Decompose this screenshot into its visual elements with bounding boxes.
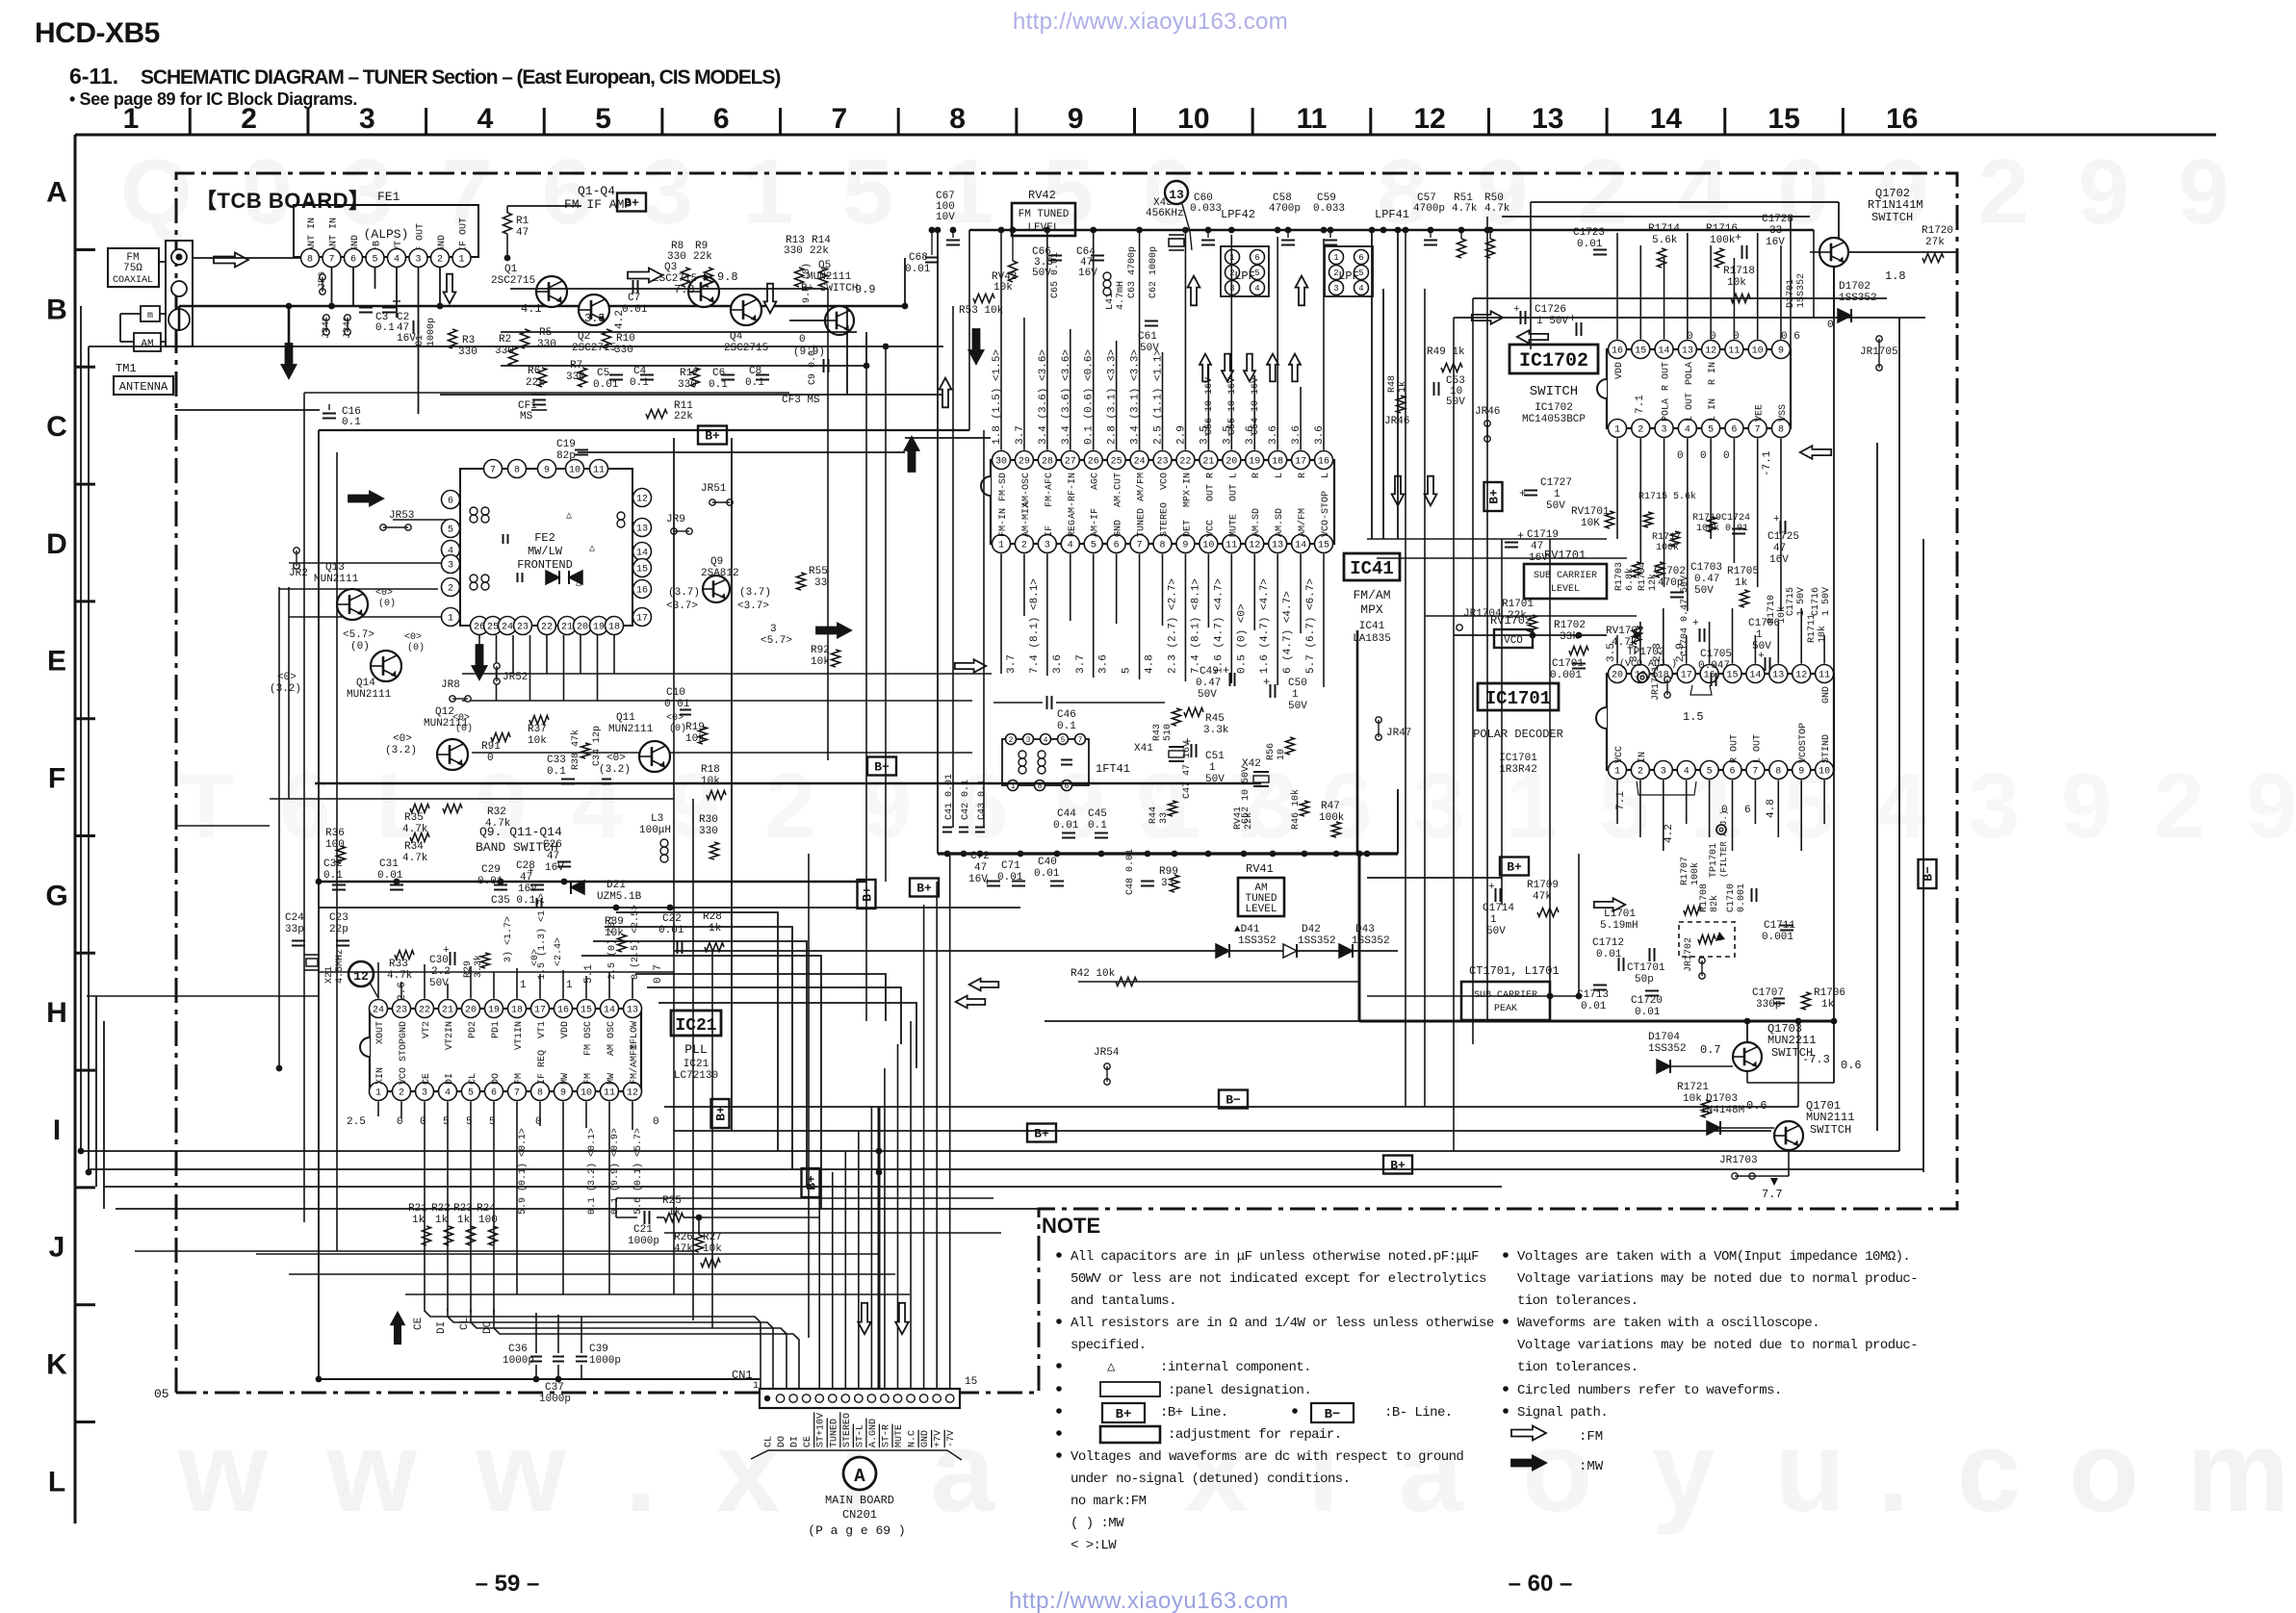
svg-text:14: 14 — [1650, 103, 1683, 135]
svg-text:0.033: 0.033 — [1313, 203, 1345, 215]
svg-text:ANT IN: ANT IN — [329, 218, 340, 252]
svg-text:50V: 50V — [1546, 500, 1565, 512]
svg-text:20: 20 — [465, 1006, 477, 1016]
svg-text:C49: C49 — [1200, 666, 1219, 678]
svg-text:27k: 27k — [1925, 237, 1945, 248]
svg-text:POLA: POLA — [1662, 398, 1672, 422]
svg-text:50V: 50V — [1032, 268, 1051, 279]
svg-text:330: 330 — [537, 339, 556, 350]
svg-text:AM-OSC: AM-OSC — [1021, 473, 1032, 507]
svg-text:C46: C46 — [1057, 709, 1076, 721]
svg-text:R91: R91 — [481, 741, 501, 753]
svg-text:1SS352: 1SS352 — [1648, 1043, 1687, 1055]
svg-text:C47 47 16V: C47 47 16V — [1182, 741, 1193, 799]
wire q5 b — [789, 320, 825, 321]
svg-text:8: 8 — [1160, 541, 1166, 551]
svg-text:D1702: D1702 — [1839, 281, 1870, 293]
svg-text:LEVEL: LEVEL — [1027, 222, 1059, 234]
svg-text:IF REQ: IF REQ — [537, 1050, 548, 1085]
svg-text:4: 4 — [477, 103, 494, 135]
svg-text:B+: B+ — [1034, 1127, 1049, 1141]
svg-text:(VCO ADJ.): (VCO ADJ.) — [1619, 658, 1677, 670]
svg-text:R1716: R1716 — [1706, 223, 1738, 235]
svg-text:4700p: 4700p — [1269, 203, 1301, 215]
svg-text:L: L — [48, 1466, 65, 1498]
svg-text:6: 6 — [1358, 253, 1363, 263]
signal arrow fm in — [214, 253, 248, 268]
svg-text:VCO: VCO — [1160, 473, 1171, 490]
svg-text:0.033: 0.033 — [1190, 203, 1222, 215]
svg-text:MW: MW — [606, 1073, 617, 1085]
svg-text:75Ω: 75Ω — [123, 263, 142, 274]
svg-text:C32: C32 — [323, 858, 343, 870]
svg-text:C1710: C1710 — [1726, 883, 1737, 912]
svg-text:0.01: 0.01 — [593, 379, 619, 391]
svg-text:3.5: 3.5 — [1222, 425, 1233, 445]
svg-text:C40: C40 — [1038, 857, 1057, 868]
svg-text:17: 17 — [636, 614, 648, 625]
svg-text:C1705: C1705 — [1700, 649, 1732, 660]
svg-text:R1705: R1705 — [1727, 566, 1759, 577]
svg-text:4.1: 4.1 — [521, 302, 542, 316]
svg-text:1: 1 — [566, 980, 573, 991]
svg-text:1: 1 — [1614, 425, 1620, 436]
fm arrow into ic41 — [955, 659, 986, 673]
svg-text:PLL: PLL — [684, 1042, 707, 1057]
svg-text:0.1 (9.9) <0.9>: 0.1 (9.9) <0.9> — [609, 1128, 621, 1215]
svg-text:11: 11 — [1819, 671, 1830, 681]
svg-text:– 59 –: – 59 – — [476, 1571, 540, 1597]
svg-text:+7V: +7V — [934, 1430, 944, 1447]
svg-text:FE1: FE1 — [377, 190, 400, 204]
svg-text:0.01: 0.01 — [1034, 868, 1060, 880]
svg-text:16: 16 — [636, 586, 648, 597]
svg-text:0: 0 — [487, 753, 494, 764]
svg-text:IC1702: IC1702 — [1519, 350, 1588, 372]
svg-text:C5: C5 — [597, 368, 609, 379]
svg-text:C45: C45 — [1088, 808, 1107, 820]
svg-text:1: 1 — [1209, 762, 1216, 774]
svg-text:Q13: Q13 — [325, 562, 345, 574]
svg-text:Q14: Q14 — [356, 678, 375, 689]
svg-text:5: 5 — [1122, 667, 1133, 674]
svg-text:1SS352: 1SS352 — [1796, 273, 1807, 308]
svg-text:5: 5 — [372, 255, 377, 266]
svg-text:LPF: LPF — [1338, 269, 1359, 283]
svg-text:C1724: C1724 — [1721, 513, 1750, 524]
solid up arrow mid — [905, 437, 919, 472]
svg-text:C63 4700p: C63 4700p — [1127, 246, 1138, 298]
svg-text:15: 15 — [1318, 541, 1329, 551]
mw arrow right mid — [816, 624, 851, 638]
wire v940 — [904, 258, 906, 306]
IC21 body and pins — [370, 1009, 641, 1091]
svg-text:47: 47 — [974, 862, 987, 874]
svg-text:LC72130: LC72130 — [674, 1070, 718, 1082]
svg-text:7.7: 7.7 — [1762, 1188, 1783, 1201]
svg-text:MW: MW — [560, 1073, 571, 1085]
svg-text:HCD-XB5: HCD-XB5 — [35, 17, 160, 49]
svg-text:0.01: 0.01 — [1577, 239, 1603, 250]
svg-text:SWITCH: SWITCH — [1810, 1123, 1851, 1137]
svg-text:3: 3 — [1661, 767, 1666, 778]
svg-text:DI: DI — [436, 1321, 448, 1334]
svg-text:<5.7>: <5.7> — [761, 635, 792, 647]
svg-text:LEVEL: LEVEL — [1245, 904, 1277, 915]
svg-text:9.8 (0): 9.8 (0) — [801, 263, 813, 303]
svg-text:0: 0 — [1733, 331, 1740, 343]
svg-text:27: 27 — [1065, 457, 1076, 468]
svg-text:FM OSC: FM OSC — [583, 1021, 594, 1056]
svg-text:15: 15 — [1767, 103, 1799, 135]
svg-text:9.9: 9.9 — [855, 283, 876, 296]
grid border frame — [75, 134, 2216, 137]
FE1 pin wires — [331, 268, 333, 306]
svg-text:VT1: VT1 — [537, 1021, 548, 1038]
svg-text:2SC2715: 2SC2715 — [724, 343, 768, 354]
svg-text:1SS352: 1SS352 — [1238, 935, 1277, 947]
svg-text:330: 330 — [784, 245, 803, 257]
svg-text:FE2: FE2 — [534, 531, 555, 545]
svg-text:R1711: R1711 — [1807, 614, 1818, 643]
svg-text:1: 1 — [753, 1381, 759, 1392]
FM tuned level box — [1012, 203, 1075, 236]
svg-text:AM/FM: AM/FM — [1297, 508, 1308, 537]
B+ box cf3 — [698, 426, 727, 445]
svg-text:C1712: C1712 — [1592, 937, 1624, 949]
svg-text:LPF42: LPF42 — [1221, 208, 1255, 221]
svg-text:5: 5 — [468, 1088, 474, 1099]
svg-text:0.01: 0.01 — [1635, 1007, 1661, 1018]
wire c46 — [993, 702, 1043, 704]
svg-text:11: 11 — [1225, 541, 1237, 551]
svg-text:0.7: 0.7 — [1700, 1043, 1721, 1057]
svg-text:R92: R92 — [811, 645, 830, 656]
svg-text:6-11.: 6-11. — [69, 64, 118, 89]
svg-text:1.8 (1.5) <1.5>: 1.8 (1.5) <1.5> — [992, 349, 1003, 445]
CN1 feed wires — [818, 1193, 820, 1389]
svg-text:1: 1 — [1292, 689, 1299, 701]
wire top right rail2 — [1502, 216, 1810, 218]
svg-text:C29: C29 — [481, 864, 501, 876]
svg-text:0.6: 0.6 — [1746, 1099, 1767, 1113]
svg-text:ANT IN: ANT IN — [307, 218, 318, 252]
svg-text:TUNED: TUNED — [829, 1419, 839, 1447]
svg-text:0.001: 0.001 — [1550, 670, 1582, 681]
svg-text:4700p: 4700p — [1413, 203, 1445, 215]
svg-text:• See page 89 for IC Block Dia: • See page 89 for IC Block Diagrams. — [69, 90, 357, 109]
svg-text:R99: R99 — [1159, 866, 1178, 878]
svg-text:2SA812: 2SA812 — [701, 568, 739, 579]
svg-text:(FILTER ADJ.): (FILTER ADJ.) — [1719, 810, 1729, 878]
svg-text:X41: X41 — [1134, 743, 1153, 755]
svg-text:C10: C10 — [666, 687, 685, 699]
svg-text:R25: R25 — [662, 1195, 682, 1207]
transistor Q12 — [437, 739, 468, 770]
svg-text:3.4 (3.6) <3.6>: 3.4 (3.6) <3.6> — [1061, 349, 1072, 445]
svg-text:22k: 22k — [674, 411, 693, 422]
svg-text:G: G — [45, 880, 67, 911]
wire down left — [288, 306, 291, 348]
svg-text:16V: 16V — [397, 333, 416, 345]
svg-text:(9.9): (9.9) — [793, 346, 825, 358]
svg-text:5: 5 — [466, 1116, 473, 1128]
svg-text:0: 0 — [653, 1116, 659, 1128]
svg-text:33: 33 — [814, 577, 827, 589]
svg-text:12: 12 — [1249, 541, 1260, 551]
svg-text:2.5 (1.1) <1.1>: 2.5 (1.1) <1.1> — [1153, 349, 1165, 445]
svg-text:R10: R10 — [616, 333, 635, 345]
svg-text:A: A — [854, 1466, 865, 1487]
svg-text:IF: IF — [1045, 525, 1055, 537]
sub carrier level box — [1524, 564, 1607, 599]
svg-text:10: 10 — [1202, 541, 1214, 551]
wire B-row bus — [179, 305, 905, 308]
svg-text:UZM5.1B: UZM5.1B — [597, 891, 642, 903]
svg-text:R1718: R1718 — [1723, 266, 1755, 277]
svg-text:0: 0 — [1710, 331, 1716, 343]
svg-text:NOTE: NOTE — [1042, 1214, 1100, 1238]
svg-text:TP1702: TP1702 — [1627, 647, 1665, 658]
svg-text:<0>: <0> — [606, 753, 626, 764]
svg-text:25: 25 — [487, 623, 499, 633]
svg-text:5: 5 — [1254, 269, 1259, 278]
svg-text:MUTE: MUTE — [894, 1424, 905, 1447]
svg-text:B: B — [46, 294, 67, 325]
svg-text:R3: R3 — [462, 335, 475, 346]
svg-text:0.1: 0.1 — [375, 322, 395, 334]
svg-text:50V: 50V — [1486, 926, 1506, 937]
svg-text:FM-IN: FM-IN — [998, 508, 1009, 537]
svg-text:2: 2 — [1021, 541, 1027, 551]
hollow arrow q5 — [764, 284, 777, 314]
svg-text:12: 12 — [1705, 346, 1716, 357]
svg-text:POLA: POLA — [1685, 362, 1695, 385]
svg-text:F: F — [48, 763, 65, 795]
svg-text:1k: 1k — [1735, 577, 1748, 589]
svg-text:D21: D21 — [606, 880, 626, 891]
svg-text:F OUT: F OUT — [416, 223, 426, 252]
svg-text:3: 3 — [1662, 425, 1667, 436]
svg-text:C26: C26 — [543, 839, 562, 851]
svg-text:17: 17 — [1295, 457, 1306, 468]
svg-text:C71: C71 — [1001, 860, 1020, 872]
svg-text:Voltages are taken with a VOM(: Voltages are taken with a VOM(Input impe… — [1517, 1249, 1910, 1265]
svg-text:m: m — [147, 311, 153, 321]
svg-text:A.GND: A.GND — [868, 1419, 879, 1447]
svg-text:AM-IF: AM-IF — [1091, 508, 1101, 537]
svg-text:(0): (0) — [378, 598, 396, 609]
svg-text:B+: B+ — [874, 760, 890, 775]
svg-text:5: 5 — [489, 1116, 496, 1128]
svg-text:VEE: VEE — [1755, 404, 1766, 422]
svg-text:<0>: <0> — [375, 588, 393, 599]
sub carrier peak box — [1461, 982, 1550, 1020]
svg-text:29: 29 — [1019, 457, 1030, 468]
svg-text:16: 16 — [557, 1006, 569, 1016]
fm arrows down pair — [1392, 476, 1405, 506]
svg-text:R34: R34 — [404, 841, 424, 853]
svg-text:TM1: TM1 — [116, 362, 137, 375]
svg-text:C1727: C1727 — [1540, 477, 1572, 489]
svg-text:SUB CARRIER: SUB CARRIER — [1534, 571, 1597, 581]
svg-text:L1701: L1701 — [1604, 909, 1636, 920]
svg-text:19: 19 — [488, 1006, 500, 1016]
svg-text:FM-AFC: FM-AFC — [1045, 473, 1055, 507]
svg-text:8: 8 — [537, 1088, 543, 1099]
svg-text:15: 15 — [1635, 346, 1646, 357]
svg-text:330: 330 — [667, 251, 686, 263]
svg-text:14: 14 — [1295, 541, 1306, 551]
svg-text:FM: FM — [514, 1073, 525, 1085]
svg-text:JR51: JR51 — [701, 483, 727, 495]
cap arrows row — [1200, 354, 1211, 382]
svg-text:PEAK: PEAK — [1494, 1004, 1517, 1014]
svg-text:10k: 10k — [528, 735, 547, 747]
svg-text:0.001: 0.001 — [1737, 883, 1747, 912]
svg-text:0: 0 — [535, 1116, 542, 1128]
svg-text:B−: B− — [1225, 1093, 1241, 1108]
svg-text:JR8: JR8 — [441, 679, 460, 691]
svg-text:1 50V: 1 50V — [1796, 587, 1807, 616]
svg-text:B+: B+ — [714, 1106, 729, 1121]
svg-text:B+: B+ — [1116, 1407, 1132, 1422]
svg-text:C36: C36 — [508, 1344, 528, 1355]
svg-text:VDD: VDD — [1614, 362, 1625, 379]
TCB board dash-dot outline — [176, 173, 1957, 1393]
fm arrow lpf1 — [1188, 276, 1200, 306]
svg-text:(0): (0) — [350, 641, 370, 653]
wire am — [120, 313, 141, 315]
svg-text:C24: C24 — [285, 912, 304, 924]
CN1 bracket — [751, 1450, 962, 1460]
transistor Q13 — [337, 589, 368, 620]
svg-text:ST-R: ST-R — [881, 1424, 891, 1447]
svg-text:3.6: 3.6 — [1291, 425, 1303, 445]
svg-text:C35 0.1: C35 0.1 — [491, 895, 536, 907]
svg-text:+: + — [1519, 487, 1526, 500]
svg-text:VCO-STOP: VCO-STOP — [1321, 491, 1331, 537]
svg-text:+: + — [1513, 304, 1520, 316]
svg-text:+: + — [1488, 882, 1495, 893]
svg-text:11: 11 — [1297, 103, 1328, 135]
svg-text:1: 1 — [998, 541, 1004, 551]
svg-text:3.3k: 3.3k — [1203, 725, 1229, 736]
svg-text:1: 1 — [448, 614, 453, 625]
svg-text:1SS352: 1SS352 — [1298, 935, 1336, 947]
svg-text:100k: 100k — [1710, 235, 1736, 246]
wire ic1701 top rail — [1454, 634, 1607, 636]
svg-text:D: D — [46, 528, 67, 560]
svg-text:C1: C1 — [415, 335, 426, 346]
svg-text:ST+10V: ST+10V — [816, 1413, 827, 1447]
resistor R1 — [503, 213, 512, 234]
svg-text:C: C — [46, 411, 67, 443]
IC1702 body and pins — [1607, 349, 1791, 428]
svg-text:0.1: 0.1 — [1088, 820, 1107, 832]
transformer IFT41 — [1002, 739, 1089, 785]
svg-text:OUT L: OUT L — [1228, 473, 1239, 501]
svg-text:6: 6 — [1731, 425, 1737, 436]
svg-text:10: 10 — [1752, 346, 1764, 357]
right bus wires — [1473, 297, 1887, 299]
svg-text:AM.CUT: AM.CUT — [1114, 473, 1124, 507]
svg-text:47: 47 — [1773, 543, 1786, 554]
svg-text:AM-MIX: AM-MIX — [1021, 502, 1032, 537]
svg-text:2.9: 2.9 — [1175, 425, 1187, 445]
IC1701 stubs — [1616, 635, 1618, 664]
svg-text:B−: B− — [1325, 1407, 1341, 1422]
IC1702 designator box — [1509, 345, 1598, 373]
IC41 body and pins — [991, 460, 1334, 544]
svg-text:22: 22 — [1179, 457, 1191, 468]
antenna terminal TM1 — [166, 241, 193, 346]
svg-text:22k: 22k — [693, 251, 712, 263]
svg-text:10K: 10K — [1581, 518, 1600, 529]
FE2 pins — [442, 491, 460, 509]
svg-text:<2.4>: <2.4> — [554, 937, 564, 966]
svg-text:MAIN BOARD: MAIN BOARD — [825, 1494, 894, 1507]
svg-text:R OUT: R OUT — [1730, 734, 1741, 763]
svg-text:R1706: R1706 — [1814, 987, 1845, 999]
svg-text:0: 0 — [397, 1116, 403, 1128]
svg-text:4.7mH: 4.7mH — [1116, 281, 1126, 310]
svg-text:11: 11 — [593, 466, 605, 476]
svg-text:C1716: C1716 — [1811, 587, 1821, 616]
svg-text:B+: B+ — [1487, 489, 1502, 504]
svg-text:under no-signal (detuned) cond: under no-signal (detuned) conditions. — [1071, 1472, 1351, 1487]
transistor Q4 — [731, 294, 761, 325]
IC1702 stubs — [1616, 233, 1618, 340]
svg-text:3: 3 — [770, 624, 777, 635]
fm arrow subc — [1594, 898, 1625, 911]
svg-text:0: 0 — [420, 1116, 426, 1128]
svg-text:3.7: 3.7 — [1006, 654, 1018, 674]
transistor Q3 — [688, 276, 719, 307]
svg-text:<3.7>: <3.7> — [666, 601, 698, 612]
svg-text:GND: GND — [399, 1021, 409, 1038]
IC21 designator box — [671, 1011, 721, 1036]
wire rail 1433 — [319, 1378, 760, 1380]
svg-text:16V: 16V — [545, 862, 564, 874]
svg-text:33k: 33k — [1560, 631, 1579, 643]
svg-text:10k: 10k — [993, 282, 1013, 294]
svg-text:-7.3: -7.3 — [1802, 1053, 1830, 1066]
svg-text:0.5 (0) <0>: 0.5 (0) <0> — [1236, 603, 1248, 674]
svg-text:L OUT: L OUT — [1752, 734, 1763, 763]
svg-text:C23: C23 — [329, 912, 348, 924]
AM box — [134, 333, 161, 351]
svg-text:GND: GND — [1114, 520, 1124, 537]
svg-text:9: 9 — [560, 1088, 566, 1099]
svg-text:VSS: VSS — [1778, 404, 1789, 422]
svg-text:(0): (0) — [669, 723, 686, 734]
svg-text:CF3 MS: CF3 MS — [782, 395, 820, 406]
FE1 pins — [301, 249, 320, 268]
svg-text:△: △ — [1107, 1360, 1116, 1375]
svg-text:1: 1 — [1614, 767, 1620, 778]
fm arrow up left — [940, 378, 952, 408]
svg-text:7: 7 — [514, 1088, 520, 1099]
diode row wire — [674, 950, 1398, 952]
svg-text:5: 5 — [443, 1116, 450, 1128]
svg-text:(0): (0) — [407, 642, 425, 653]
svg-text:R1707: R1707 — [1680, 857, 1690, 885]
svg-text:3.6: 3.6 — [1098, 654, 1110, 674]
svg-text:5: 5 — [448, 525, 453, 536]
svg-text:<0>: <0> — [277, 672, 297, 683]
svg-text:(3.2): (3.2) — [385, 745, 417, 756]
